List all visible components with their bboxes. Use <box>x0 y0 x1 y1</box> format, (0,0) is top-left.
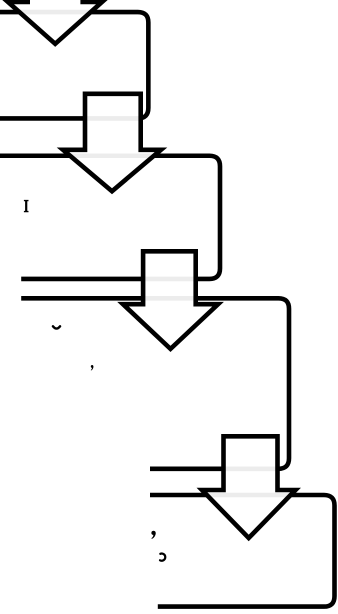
wire S-path 1 (top line through arrow 1 head, down, back left through arrow 2 shaft) <box>0 12 148 118</box>
text fragment comma 1 <box>91 365 94 371</box>
block arrow 1 (top, partially cut off) <box>8 0 102 44</box>
text fragment letter I <box>24 200 29 212</box>
block arrow 2 <box>63 94 161 191</box>
text fragment crescent <box>160 554 165 561</box>
text fragment comma 2 <box>151 531 155 539</box>
wire S-path 3 (line through arrow 3 shaft, down, back left through arrow 4 shaft) <box>21 298 289 469</box>
block arrow 4 <box>202 436 296 538</box>
text fragment breve curve <box>53 326 60 328</box>
wire S-path 2 (line through arrow 2 head, down, back left through arrow 3 shaft) <box>0 156 220 279</box>
block arrow 3 <box>123 251 218 349</box>
wire S-path 4 (line through arrow 4 head, down right edge, bottom line) <box>150 495 335 607</box>
